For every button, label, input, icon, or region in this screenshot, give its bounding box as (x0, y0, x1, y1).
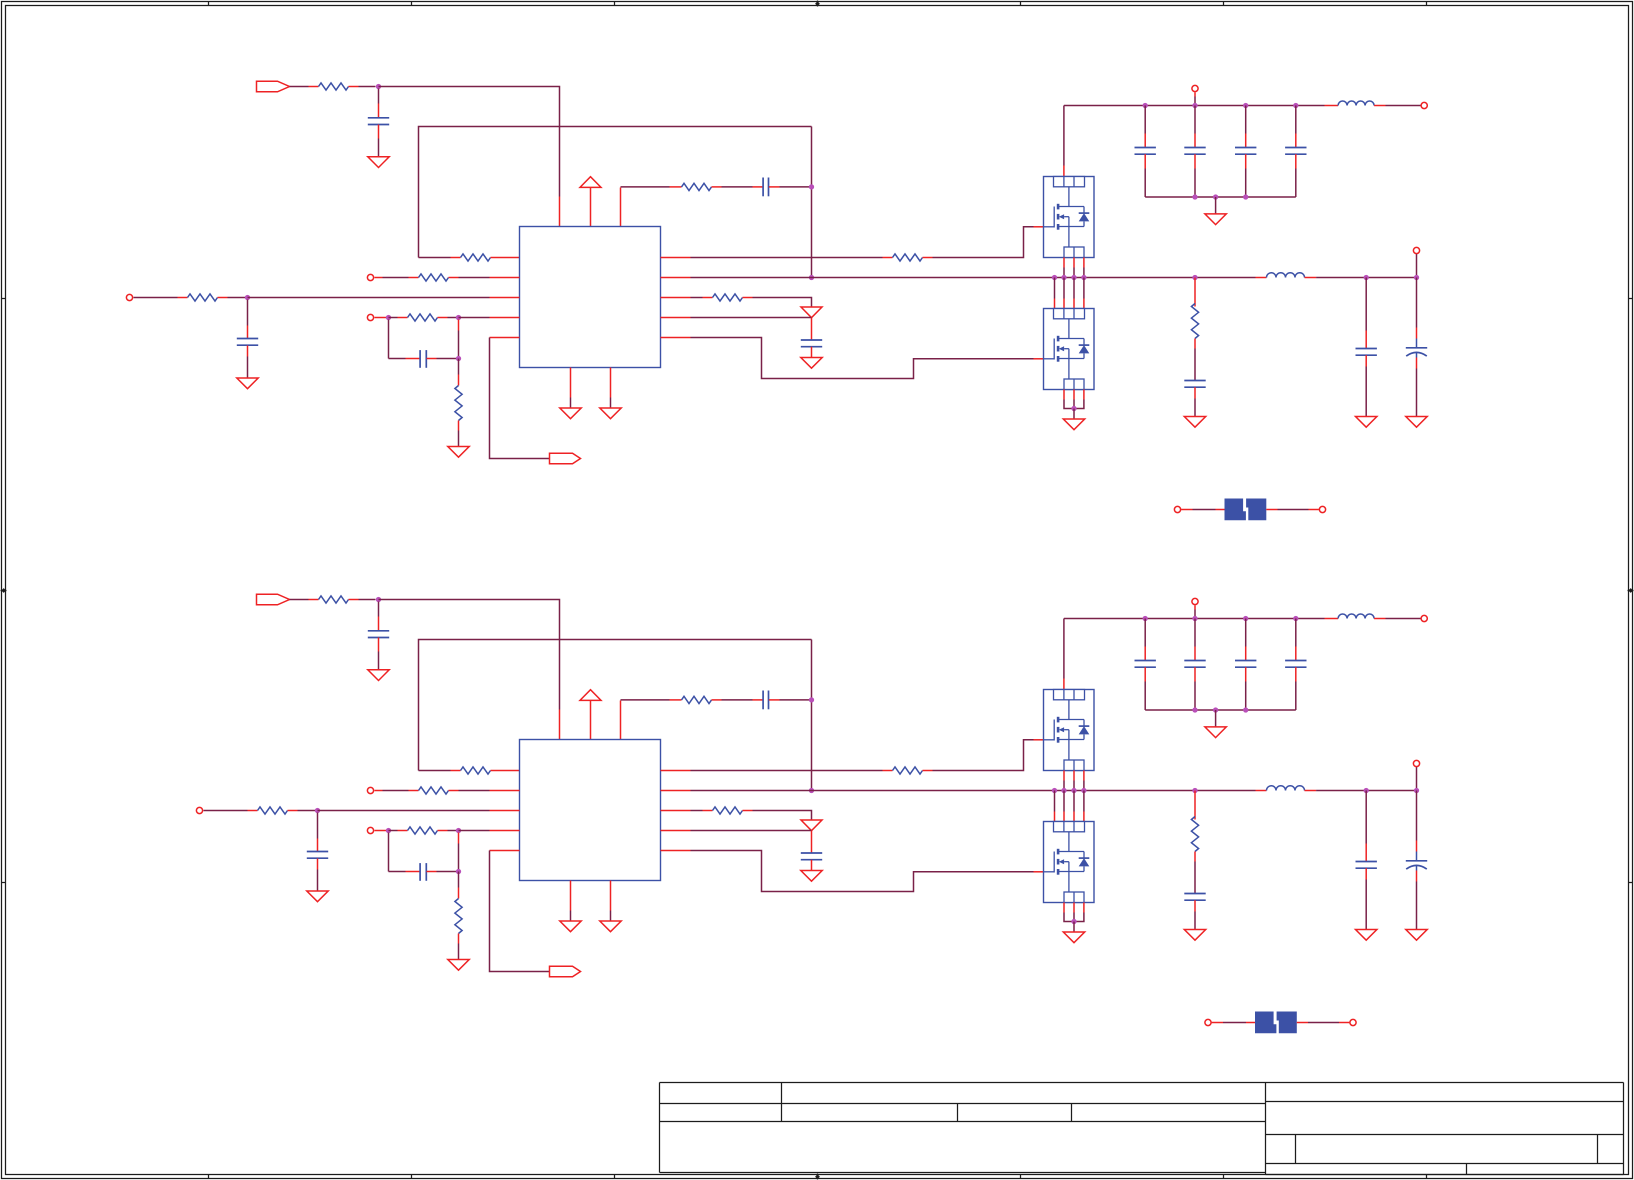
wire (379, 87, 560, 197)
wire (449, 277, 459, 279)
wire (490, 851, 550, 972)
resistor R6 (713, 294, 743, 301)
junction (456, 869, 461, 874)
wire (1144, 619, 1146, 647)
terminal TP8 (1319, 506, 1325, 512)
resistor R21 (682, 696, 712, 703)
wire (491, 257, 520, 259)
junction (1071, 788, 1076, 793)
net tie NT1 (1225, 499, 1246, 521)
resistor R17 (258, 807, 288, 814)
ground (1406, 930, 1427, 941)
title block (660, 1082, 1624, 1084)
wire (1073, 771, 1075, 781)
capacitor C9 (1356, 348, 1377, 350)
junction (1364, 275, 1369, 280)
capacitor C23 (1135, 660, 1156, 662)
wire (388, 833, 390, 872)
wire (1064, 618, 1325, 620)
power flag VCC (580, 177, 601, 188)
resistor R9 (682, 183, 712, 190)
wire (712, 699, 722, 701)
capacitor C13 (1235, 147, 1256, 149)
wire (661, 337, 691, 339)
wire (248, 297, 490, 299)
junction (809, 184, 814, 189)
junction (1243, 707, 1248, 712)
resistor R4 (419, 274, 449, 281)
junction (1061, 275, 1066, 280)
wire (1365, 278, 1367, 331)
junction (1081, 788, 1086, 793)
ground (237, 378, 258, 389)
wire (1194, 278, 1196, 296)
resistor R8 (455, 386, 462, 421)
wire (1073, 903, 1075, 913)
terminal TP3 (367, 314, 373, 320)
wire (378, 125, 380, 139)
junction (809, 275, 814, 280)
wire (769, 186, 780, 188)
capacitor C3 (419, 350, 421, 368)
ground (1356, 930, 1377, 941)
wire (1145, 709, 1296, 711)
wire (375, 277, 383, 279)
junction (1243, 103, 1248, 108)
resistor R16 (419, 787, 449, 794)
junction (1052, 788, 1057, 793)
wire (1305, 277, 1317, 279)
wire (1083, 771, 1085, 781)
junction (456, 356, 461, 361)
resistor R14 (461, 767, 491, 774)
wire (923, 770, 933, 772)
wire (459, 317, 490, 319)
wire (661, 317, 691, 319)
wire (661, 850, 691, 852)
wire (1245, 154, 1247, 168)
junction (456, 828, 461, 833)
wire (1194, 667, 1196, 681)
capacitor C12 (1184, 147, 1205, 149)
inductor L4 (1267, 786, 1305, 791)
wire (661, 790, 691, 792)
wire (1374, 105, 1385, 107)
wire (559, 197, 561, 227)
ground (600, 408, 621, 419)
wire (389, 317, 398, 319)
terminal TP14 (196, 807, 202, 813)
wire (1063, 903, 1065, 913)
wire (1295, 106, 1297, 134)
ground (1205, 214, 1226, 225)
junction (1192, 788, 1197, 793)
resistor R10 (1191, 304, 1198, 339)
wire (427, 871, 437, 873)
wire (1295, 667, 1297, 681)
capacitor C2 (237, 338, 258, 340)
wire (1181, 509, 1192, 511)
wire (458, 833, 460, 844)
junction (1061, 788, 1066, 793)
wire (1073, 922, 1075, 932)
wire (811, 640, 813, 791)
wire (1063, 390, 1065, 400)
net flag PG1 (550, 453, 581, 464)
junction (1071, 406, 1076, 411)
wire (1194, 339, 1196, 349)
wire (438, 317, 448, 319)
wire (288, 810, 298, 812)
wire (247, 346, 249, 357)
ground (1356, 417, 1377, 428)
terminal TP4 (1192, 85, 1198, 91)
wire (458, 934, 460, 944)
resistor R22 (1191, 817, 1198, 852)
wire (1063, 791, 1065, 812)
wire (559, 710, 561, 740)
junction (456, 315, 461, 320)
wire (1063, 106, 1065, 166)
resistor R19 (408, 827, 438, 834)
wire (490, 338, 550, 459)
junction (376, 597, 381, 602)
wire (743, 810, 753, 812)
terminal TP2 (126, 294, 132, 300)
wire (1416, 278, 1418, 328)
wire (490, 850, 520, 852)
MOSFET Q3 (high side) (1044, 690, 1095, 771)
junction (809, 788, 814, 793)
wire (458, 421, 460, 431)
wire (570, 881, 572, 911)
junction (315, 808, 320, 813)
capacitor C15 (419, 863, 421, 881)
MOSFET Q2 (low side) (1044, 309, 1095, 390)
wire (290, 86, 309, 88)
capacitor C16 (762, 691, 764, 710)
junction (1081, 275, 1086, 280)
wire (661, 810, 691, 812)
capacitor C24 (1184, 660, 1205, 662)
wire (811, 318, 813, 326)
wire (1144, 667, 1146, 681)
wire (458, 320, 460, 331)
junction (386, 315, 391, 320)
wire (811, 831, 813, 839)
terminal TP5 (1421, 102, 1427, 108)
wire (317, 859, 319, 870)
wire (1073, 791, 1075, 812)
wire (1365, 868, 1367, 879)
resistor R1 (319, 83, 349, 90)
controller IC U1 (520, 227, 661, 368)
wire (459, 830, 490, 832)
terminal TP20 (1350, 1019, 1356, 1025)
power flag VCC (580, 690, 601, 701)
ground (600, 921, 621, 932)
wire (491, 770, 520, 772)
ground (1063, 932, 1084, 943)
capacitor C13 (368, 630, 389, 632)
wire (1416, 254, 1418, 277)
wire (1365, 791, 1367, 844)
net flag PG2 (550, 966, 581, 977)
capacitor C14 (307, 851, 328, 853)
ground (1184, 930, 1205, 941)
junction (1364, 788, 1369, 793)
wire (661, 297, 691, 299)
wire (317, 813, 319, 839)
ground (1184, 417, 1205, 428)
capacitor C10 (polarized) (1416, 339, 1418, 348)
ground (1406, 417, 1427, 428)
resistor R2 (461, 254, 491, 261)
inductor L1 (1338, 101, 1374, 106)
terminal TP6 (1413, 247, 1419, 253)
terminal TP17 (1421, 615, 1427, 621)
terminal TP19 (1205, 1019, 1211, 1025)
wire (427, 358, 437, 360)
wire (1212, 1022, 1223, 1024)
wire (1374, 618, 1385, 620)
junction (1192, 616, 1197, 621)
ground (1063, 419, 1084, 430)
junction (386, 828, 391, 833)
wire (1064, 105, 1325, 107)
wire (1416, 791, 1418, 841)
wire (1194, 387, 1196, 398)
resistor R7 (408, 314, 438, 321)
wire (458, 872, 460, 888)
wire (1194, 619, 1196, 647)
resistor R18 (713, 807, 743, 814)
junction (1052, 275, 1057, 280)
wire (1194, 791, 1196, 809)
net flag IN2 (input) (257, 594, 290, 605)
resistor R3 (893, 254, 923, 261)
wire (375, 790, 383, 792)
terminal TP15 (367, 827, 373, 833)
wire (1245, 106, 1247, 134)
wire (1416, 358, 1418, 369)
wire (1063, 771, 1065, 781)
wire (134, 297, 178, 299)
wire (1145, 196, 1296, 198)
wire (1194, 605, 1196, 609)
junction (245, 295, 250, 300)
wire (458, 359, 460, 375)
wire (1194, 154, 1196, 168)
wire (1365, 355, 1367, 366)
power flag (801, 307, 822, 318)
junction (1243, 616, 1248, 621)
resistor R13 (319, 596, 349, 603)
wire (620, 188, 622, 227)
ground (307, 891, 328, 902)
ground (801, 871, 822, 882)
capacitor C21 (1356, 861, 1377, 863)
capacitor C26 (1285, 660, 1306, 662)
wire (388, 320, 390, 359)
wire (610, 368, 612, 398)
wire (769, 699, 780, 701)
wire (378, 638, 380, 652)
junction (1213, 194, 1218, 199)
wire (1073, 390, 1075, 400)
junction (1071, 919, 1076, 924)
ground (368, 157, 389, 168)
MOSFET Q4 (low side) (1044, 822, 1095, 903)
junction (1192, 103, 1197, 108)
capacitor C1 (368, 117, 389, 119)
wire (1054, 278, 1056, 299)
capacitor C19 (801, 852, 822, 854)
ground (1205, 727, 1226, 738)
junction (1192, 275, 1197, 280)
wire (811, 860, 813, 871)
ground (448, 960, 469, 971)
junction (1192, 707, 1197, 712)
ground (448, 447, 469, 458)
wire (811, 347, 813, 358)
wire (290, 599, 309, 601)
ground (560, 408, 581, 419)
capacitor C4 (762, 178, 764, 197)
wire (378, 602, 380, 617)
wire (661, 830, 691, 832)
resistor R5 (188, 294, 218, 301)
net flag IN1 (input) (257, 81, 290, 92)
wire (1245, 667, 1247, 681)
capacitor C22 (polarized) (1416, 852, 1418, 861)
wire (1194, 852, 1196, 862)
wire (1194, 106, 1196, 134)
inductor L3 (1338, 614, 1374, 619)
wire (1215, 710, 1217, 727)
net tie NT2 (1255, 1012, 1276, 1034)
wire (661, 277, 691, 279)
wire (349, 599, 359, 601)
wire (1083, 791, 1085, 812)
wire (620, 701, 622, 740)
wire (1215, 197, 1217, 214)
wire (218, 297, 228, 299)
wire (1083, 278, 1085, 299)
wire (1194, 900, 1196, 911)
resistor R20 (455, 899, 462, 934)
wire (1295, 154, 1297, 168)
wire (712, 186, 722, 188)
wire (438, 830, 448, 832)
wire (349, 86, 359, 88)
wire (1256, 790, 1267, 792)
junction (1293, 103, 1298, 108)
MOSFET Q1 (high side) (1044, 177, 1095, 258)
wire (1063, 258, 1065, 268)
wire (449, 790, 459, 792)
wire (570, 368, 572, 398)
wire (1245, 619, 1247, 647)
wire (1144, 154, 1146, 168)
wire (661, 257, 691, 259)
capacitor C20 (1184, 893, 1205, 895)
wire (419, 640, 812, 771)
wire (590, 188, 592, 227)
wire (1073, 258, 1075, 268)
junction (1213, 707, 1218, 712)
wire (590, 701, 592, 740)
wire (1416, 767, 1418, 790)
wire (247, 300, 249, 326)
wire (318, 810, 490, 812)
wire (1144, 106, 1146, 134)
wire (1266, 509, 1277, 511)
junction (376, 84, 381, 89)
wire (419, 127, 812, 258)
wire (1305, 790, 1317, 792)
wire (419, 257, 451, 259)
junction (1192, 194, 1197, 199)
frame zone ticks (208, 2, 210, 6)
wire (375, 317, 389, 319)
terminal TP16 (1192, 598, 1198, 604)
power flag (801, 820, 822, 831)
wire (1063, 619, 1065, 679)
wire (378, 89, 380, 104)
junction (1293, 616, 1298, 621)
capacitor C8 (1184, 380, 1205, 382)
junction (1143, 616, 1148, 621)
wire (419, 770, 451, 772)
terminal TP7 (1174, 506, 1180, 512)
wire (1416, 871, 1418, 882)
wire (1295, 619, 1297, 647)
junction (1071, 275, 1076, 280)
junction (1143, 103, 1148, 108)
junction (809, 697, 814, 702)
wire (1325, 618, 1339, 620)
wire (661, 770, 691, 772)
capacitor C7 (801, 339, 822, 341)
terminal TP1 (367, 274, 373, 280)
wire (811, 127, 813, 278)
terminal TP13 (367, 787, 373, 793)
wire (1325, 105, 1339, 107)
ground (560, 921, 581, 932)
ground (368, 670, 389, 681)
wire (1073, 278, 1075, 299)
inductor L2 (1267, 273, 1305, 278)
controller IC U2 (520, 740, 661, 881)
wire (490, 337, 520, 339)
capacitor C11 (1135, 147, 1156, 149)
wire (375, 830, 389, 832)
junction (1414, 788, 1419, 793)
wire (379, 600, 560, 710)
wire (1194, 92, 1196, 96)
junction (1243, 194, 1248, 199)
wire (1083, 258, 1085, 268)
wire (1054, 791, 1056, 812)
resistor R15 (893, 767, 923, 774)
wire (389, 830, 398, 832)
terminal TP18 (1413, 760, 1419, 766)
wire (923, 257, 933, 259)
junction (1414, 275, 1419, 280)
ground (801, 358, 822, 369)
capacitor C25 (1235, 660, 1256, 662)
